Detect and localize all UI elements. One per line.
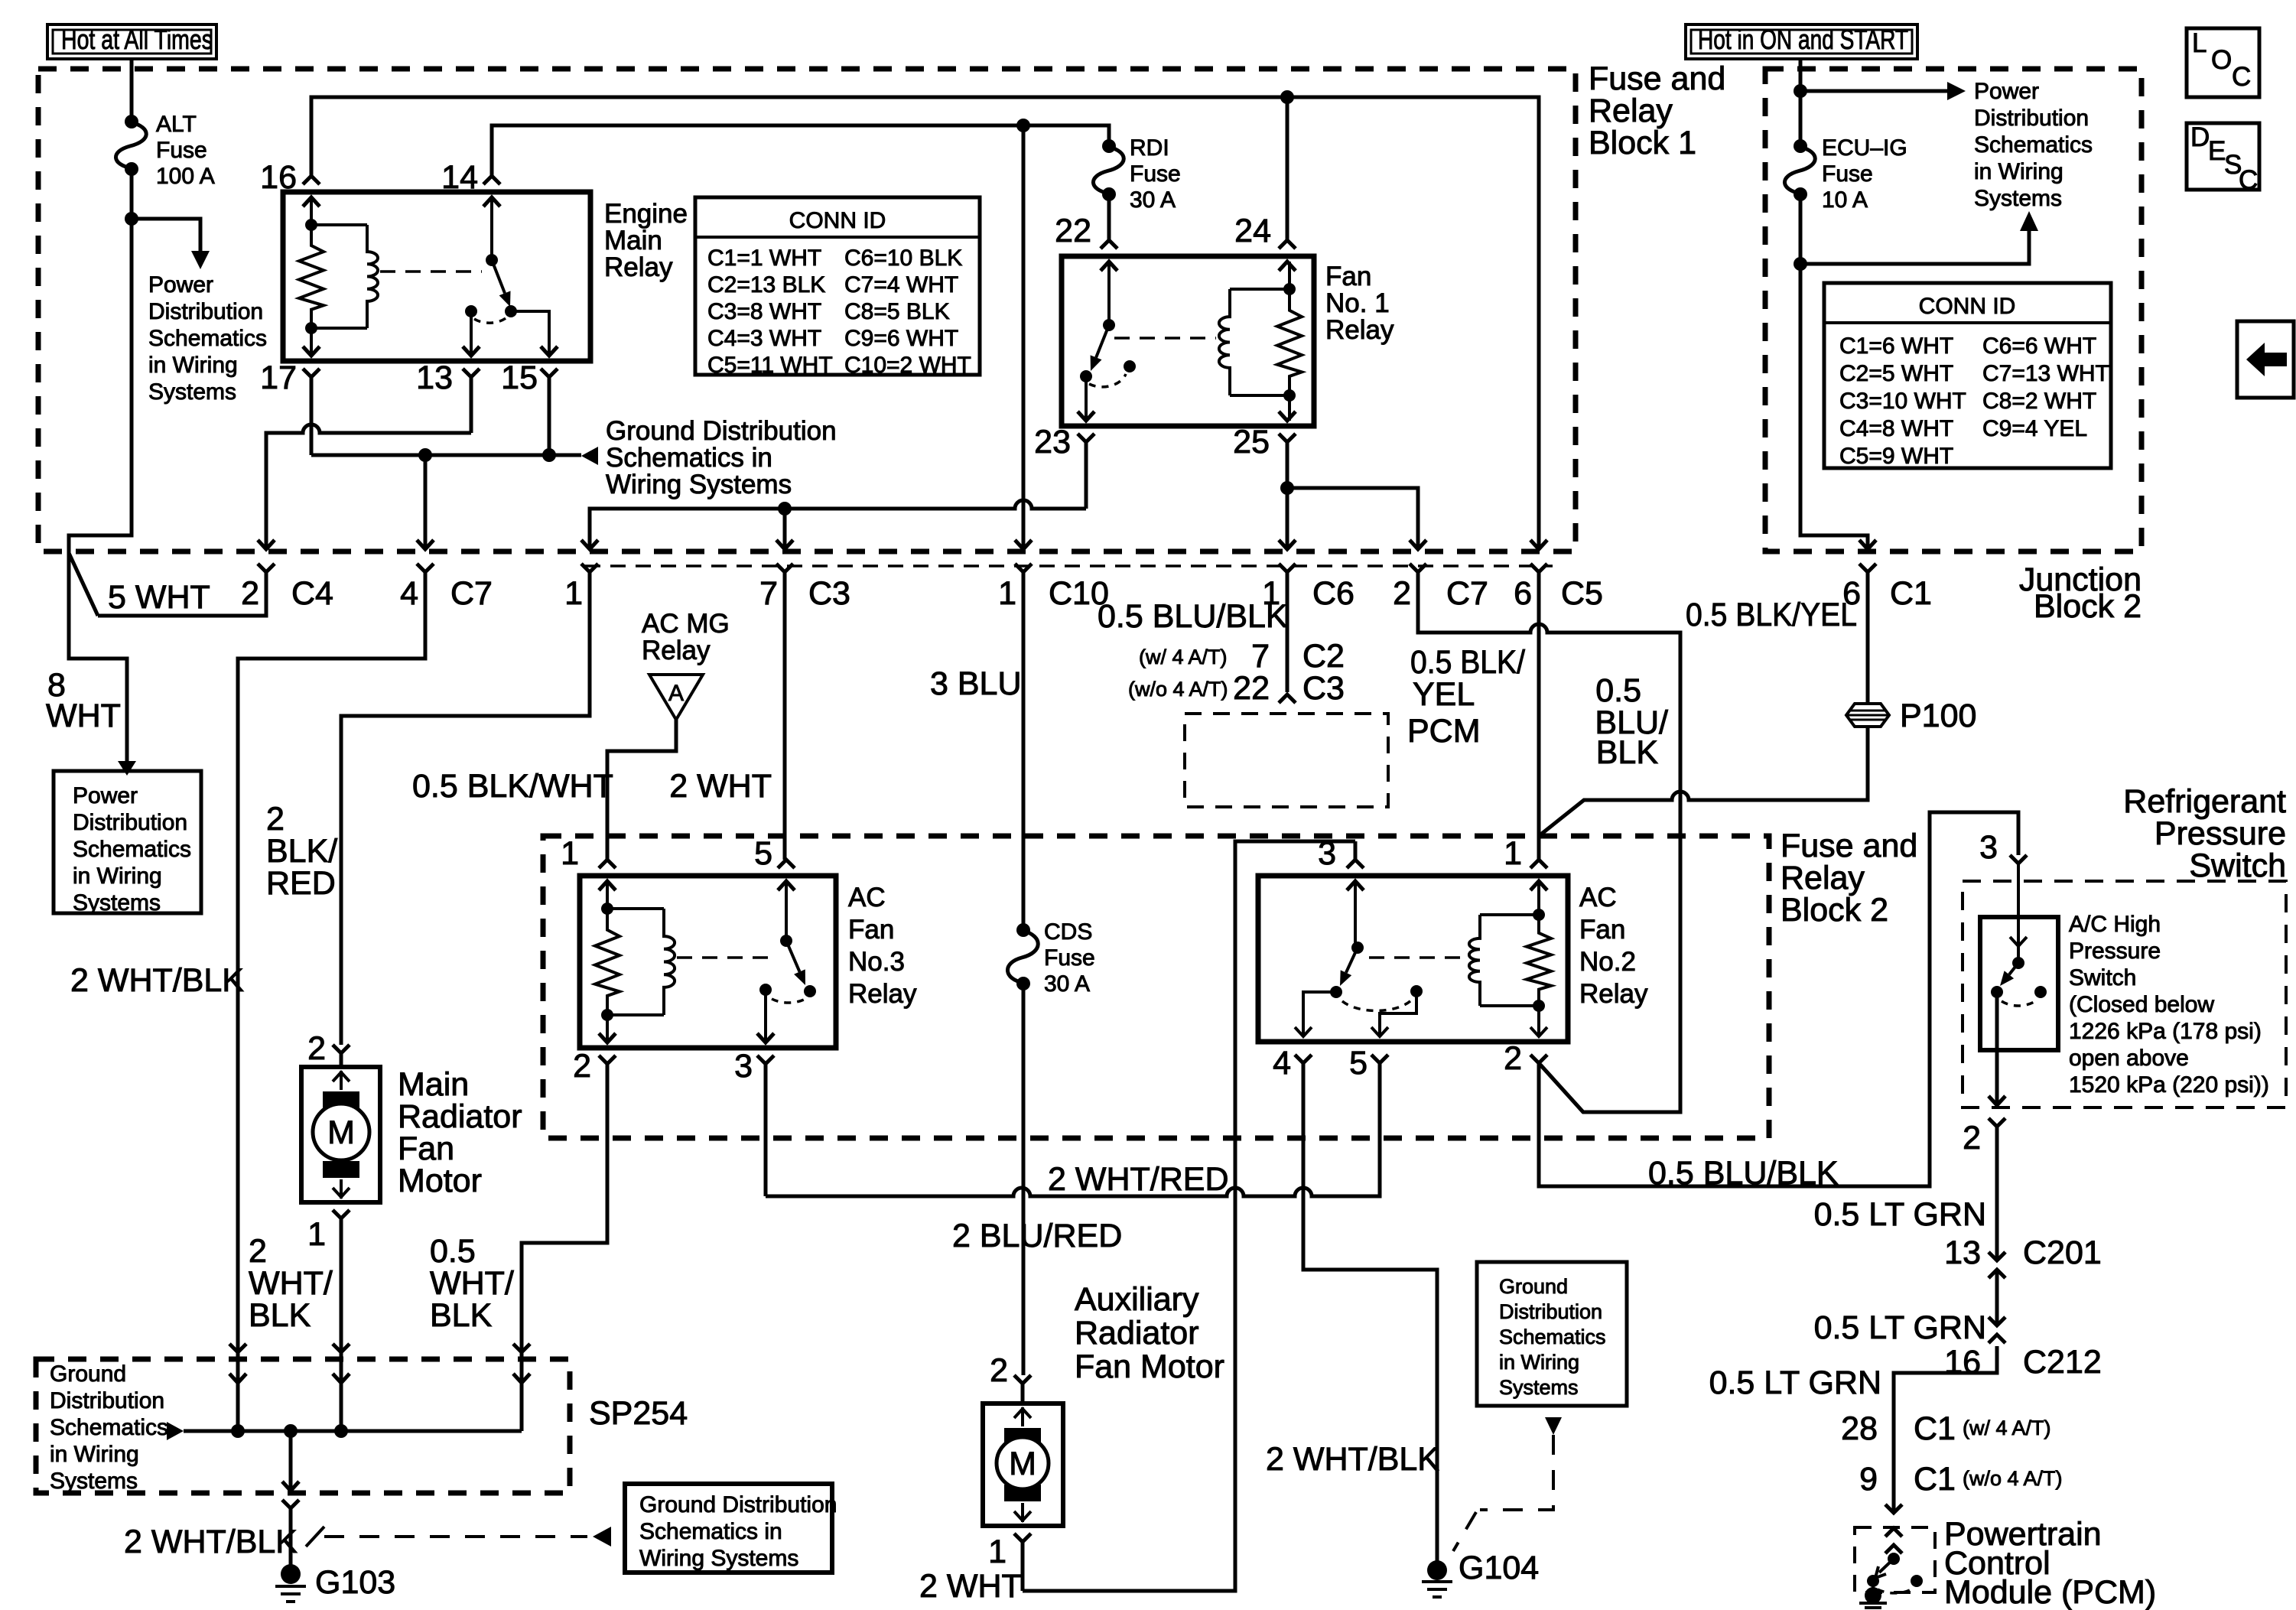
svg-text:C2: C2 bbox=[1302, 638, 1345, 675]
svg-text:C6=10 BLK: C6=10 BLK bbox=[844, 246, 962, 271]
svg-text:Motor: Motor bbox=[398, 1163, 482, 1199]
svg-text:Pressure: Pressure bbox=[2069, 938, 2161, 964]
svg-text:2 WHT/BLK: 2 WHT/BLK bbox=[1266, 1441, 1439, 1478]
svg-text:24: 24 bbox=[1234, 213, 1271, 249]
svg-text:4: 4 bbox=[400, 575, 418, 612]
svg-text:Fan: Fan bbox=[1579, 915, 1625, 945]
svg-text:Systems: Systems bbox=[73, 890, 161, 916]
svg-text:C: C bbox=[2239, 165, 2258, 195]
svg-text:6: 6 bbox=[1514, 575, 1532, 612]
svg-text:Block 1: Block 1 bbox=[1589, 125, 1696, 161]
svg-text:in Wiring: in Wiring bbox=[1499, 1351, 1579, 1374]
svg-text:100 A: 100 A bbox=[156, 164, 215, 189]
svg-text:3: 3 bbox=[734, 1048, 753, 1085]
svg-text:C9=4 YEL: C9=4 YEL bbox=[1982, 416, 2087, 441]
svg-text:C4: C4 bbox=[291, 575, 333, 612]
svg-text:Systems: Systems bbox=[1974, 186, 2062, 211]
svg-text:Fan Motor: Fan Motor bbox=[1075, 1348, 1224, 1385]
svg-text:Block 2: Block 2 bbox=[1781, 892, 1888, 929]
svg-text:Main: Main bbox=[398, 1066, 469, 1103]
svg-text:C1: C1 bbox=[1914, 1461, 1956, 1498]
svg-text:Ground: Ground bbox=[1499, 1275, 1568, 1298]
svg-text:C3=8 WHT: C3=8 WHT bbox=[707, 299, 821, 324]
svg-text:Schematics: Schematics bbox=[50, 1415, 168, 1440]
svg-text:7: 7 bbox=[759, 575, 778, 612]
svg-text:Hot in ON and START: Hot in ON and START bbox=[1698, 24, 1908, 55]
svg-text:Block 2: Block 2 bbox=[2034, 588, 2142, 625]
svg-text:C7: C7 bbox=[450, 575, 493, 612]
svg-text:L: L bbox=[2192, 28, 2207, 58]
svg-text:Engine: Engine bbox=[604, 199, 688, 229]
svg-text:Systems: Systems bbox=[1499, 1376, 1579, 1399]
svg-text:0.5 BLU/BLK: 0.5 BLU/BLK bbox=[1098, 598, 1288, 635]
svg-text:Relay: Relay bbox=[1589, 93, 1673, 129]
svg-text:2: 2 bbox=[249, 1233, 267, 1270]
svg-text:Relay: Relay bbox=[642, 636, 711, 665]
svg-text:15: 15 bbox=[501, 359, 538, 396]
svg-text:C1=6 WHT: C1=6 WHT bbox=[1839, 333, 1953, 359]
svg-text:Relay: Relay bbox=[1579, 979, 1648, 1009]
svg-text:C3: C3 bbox=[1302, 670, 1345, 707]
svg-text:2: 2 bbox=[990, 1352, 1008, 1389]
svg-text:2 WHT/BLK: 2 WHT/BLK bbox=[124, 1524, 298, 1560]
svg-text:BLK: BLK bbox=[430, 1297, 493, 1334]
svg-text:No. 1: No. 1 bbox=[1325, 288, 1390, 318]
svg-text:1: 1 bbox=[307, 1216, 326, 1253]
svg-text:2 WHT: 2 WHT bbox=[669, 768, 772, 805]
svg-text:28: 28 bbox=[1841, 1410, 1878, 1447]
svg-text:ALT: ALT bbox=[156, 112, 197, 137]
svg-text:5: 5 bbox=[754, 835, 772, 872]
svg-text:(w/ 4 A/T): (w/ 4 A/T) bbox=[1963, 1416, 2051, 1439]
svg-text:Relay: Relay bbox=[1325, 315, 1394, 345]
svg-text:1: 1 bbox=[561, 835, 579, 872]
svg-text:Fuse: Fuse bbox=[156, 138, 207, 163]
svg-text:WHT/: WHT/ bbox=[430, 1265, 514, 1302]
svg-text:(Closed below: (Closed below bbox=[2069, 992, 2214, 1017]
svg-text:0.5 LT GRN: 0.5 LT GRN bbox=[1709, 1364, 1881, 1401]
svg-text:Power: Power bbox=[1974, 79, 2039, 104]
svg-text:0.5 BLK/YEL: 0.5 BLK/YEL bbox=[1686, 597, 1857, 633]
svg-text:13: 13 bbox=[1944, 1234, 1981, 1271]
svg-text:14: 14 bbox=[441, 159, 478, 196]
svg-text:7: 7 bbox=[1251, 638, 1270, 675]
svg-text:Fan: Fan bbox=[848, 915, 894, 945]
svg-text:0.5 BLK/WHT: 0.5 BLK/WHT bbox=[412, 768, 613, 805]
svg-text:C4=3 WHT: C4=3 WHT bbox=[707, 326, 821, 351]
svg-text:13: 13 bbox=[416, 359, 453, 396]
svg-text:Switch: Switch bbox=[2069, 965, 2136, 990]
svg-text:C9=6 WHT: C9=6 WHT bbox=[844, 326, 958, 351]
svg-text:Systems: Systems bbox=[148, 379, 236, 405]
svg-text:(w/o 4 A/T): (w/o 4 A/T) bbox=[1963, 1467, 2063, 1490]
svg-text:C201: C201 bbox=[2023, 1234, 2102, 1271]
svg-text:C3: C3 bbox=[808, 575, 850, 612]
svg-text:3 BLU: 3 BLU bbox=[930, 665, 1022, 702]
svg-text:AC MG: AC MG bbox=[642, 609, 730, 639]
svg-text:BLK: BLK bbox=[1596, 734, 1659, 771]
svg-text:Fuse: Fuse bbox=[1130, 161, 1181, 187]
svg-text:Relay: Relay bbox=[604, 252, 673, 282]
svg-text:0.5 BLU/BLK: 0.5 BLU/BLK bbox=[1648, 1155, 1839, 1192]
svg-text:16: 16 bbox=[260, 159, 297, 196]
svg-text:0.5: 0.5 bbox=[1595, 672, 1641, 709]
svg-text:ECU–IG: ECU–IG bbox=[1822, 135, 1907, 161]
svg-text:(w/ 4 A/T): (w/ 4 A/T) bbox=[1139, 646, 1228, 668]
svg-text:Schematics: Schematics bbox=[1499, 1325, 1606, 1348]
svg-text:5 WHT: 5 WHT bbox=[108, 579, 210, 616]
svg-text:2: 2 bbox=[266, 801, 285, 838]
svg-text:M: M bbox=[327, 1114, 355, 1151]
svg-text:Hot at All Times: Hot at All Times bbox=[61, 24, 213, 55]
svg-text:(w/o 4 A/T): (w/o 4 A/T) bbox=[1128, 678, 1228, 701]
svg-text:0.5 BLK/: 0.5 BLK/ bbox=[1410, 644, 1525, 681]
svg-text:22: 22 bbox=[1233, 670, 1270, 707]
svg-text:16: 16 bbox=[1944, 1344, 1981, 1381]
svg-text:Radiator: Radiator bbox=[1075, 1315, 1199, 1351]
svg-text:2: 2 bbox=[1504, 1040, 1522, 1077]
svg-text:C: C bbox=[2232, 62, 2251, 92]
svg-text:BLK/: BLK/ bbox=[266, 833, 337, 870]
svg-text:0.5 LT GRN: 0.5 LT GRN bbox=[1814, 1309, 1986, 1346]
svg-text:C2=5 WHT: C2=5 WHT bbox=[1839, 361, 1953, 386]
svg-text:Wiring Systems: Wiring Systems bbox=[606, 470, 792, 499]
svg-text:No.3: No.3 bbox=[848, 947, 905, 977]
svg-text:Ground Distribution: Ground Distribution bbox=[639, 1492, 837, 1517]
svg-text:22: 22 bbox=[1055, 213, 1091, 249]
svg-text:Fuse and: Fuse and bbox=[1589, 60, 1725, 97]
svg-text:30 A: 30 A bbox=[1044, 971, 1090, 997]
svg-text:E: E bbox=[2208, 136, 2226, 166]
svg-text:RDI: RDI bbox=[1130, 135, 1169, 161]
svg-text:Power: Power bbox=[73, 783, 138, 808]
svg-text:23: 23 bbox=[1034, 424, 1071, 460]
svg-text:2: 2 bbox=[241, 575, 259, 612]
svg-text:G104: G104 bbox=[1459, 1550, 1539, 1586]
svg-text:P100: P100 bbox=[1900, 698, 1976, 734]
svg-text:2: 2 bbox=[307, 1030, 326, 1067]
svg-text:Distribution: Distribution bbox=[1499, 1300, 1602, 1323]
svg-text:Switch: Switch bbox=[2189, 847, 2286, 884]
svg-text:G103: G103 bbox=[315, 1564, 395, 1601]
svg-text:AC: AC bbox=[1579, 883, 1617, 912]
svg-text:Schematics in: Schematics in bbox=[639, 1519, 782, 1544]
svg-text:1: 1 bbox=[998, 575, 1016, 612]
svg-text:Fuse: Fuse bbox=[1822, 161, 1873, 187]
svg-text:Radiator: Radiator bbox=[398, 1098, 522, 1135]
svg-text:5: 5 bbox=[1349, 1045, 1368, 1081]
svg-text:SP254: SP254 bbox=[589, 1395, 688, 1432]
svg-text:D: D bbox=[2190, 122, 2210, 152]
svg-text:Auxiliary: Auxiliary bbox=[1075, 1281, 1199, 1318]
svg-text:C212: C212 bbox=[2023, 1344, 2102, 1381]
svg-text:C4=8 WHT: C4=8 WHT bbox=[1839, 416, 1953, 441]
svg-text:C1=1 WHT: C1=1 WHT bbox=[707, 246, 821, 271]
svg-text:A/C High: A/C High bbox=[2069, 912, 2161, 937]
svg-text:A: A bbox=[668, 681, 684, 706]
svg-text:O: O bbox=[2211, 45, 2232, 75]
svg-text:C2=13 BLK: C2=13 BLK bbox=[707, 272, 825, 298]
svg-text:BLK: BLK bbox=[249, 1297, 311, 1334]
svg-text:1520 kPa (220 psi)): 1520 kPa (220 psi)) bbox=[2069, 1072, 2269, 1098]
svg-text:open above: open above bbox=[2069, 1046, 2189, 1071]
svg-text:C7: C7 bbox=[1446, 575, 1488, 612]
svg-text:4: 4 bbox=[1273, 1045, 1291, 1081]
svg-text:RED: RED bbox=[266, 865, 336, 902]
svg-text:3: 3 bbox=[1979, 829, 1998, 866]
svg-text:1: 1 bbox=[1504, 835, 1522, 872]
svg-text:Distribution: Distribution bbox=[148, 299, 263, 324]
svg-text:Refrigerant: Refrigerant bbox=[2123, 783, 2286, 820]
svg-text:in Wiring: in Wiring bbox=[50, 1442, 139, 1467]
svg-text:Schematics: Schematics bbox=[1974, 132, 2093, 158]
svg-text:C5=11 WHT: C5=11 WHT bbox=[707, 353, 833, 378]
svg-text:Schematics: Schematics bbox=[73, 837, 191, 862]
svg-text:C7=13 WHT: C7=13 WHT bbox=[1982, 361, 2109, 386]
svg-text:2 BLU/RED: 2 BLU/RED bbox=[952, 1218, 1122, 1254]
svg-text:Fuse and: Fuse and bbox=[1781, 828, 1917, 864]
svg-text:C6=6 WHT: C6=6 WHT bbox=[1982, 333, 2096, 359]
svg-text:Wiring Systems: Wiring Systems bbox=[639, 1546, 798, 1571]
svg-text:C5: C5 bbox=[1561, 575, 1603, 612]
svg-text:1: 1 bbox=[564, 575, 583, 612]
svg-text:YEL: YEL bbox=[1413, 676, 1475, 713]
svg-text:1: 1 bbox=[988, 1534, 1007, 1570]
svg-text:9: 9 bbox=[1859, 1461, 1878, 1498]
svg-text:Systems: Systems bbox=[50, 1469, 138, 1494]
svg-text:No.2: No.2 bbox=[1579, 947, 1636, 977]
svg-text:2 WHT/RED: 2 WHT/RED bbox=[1048, 1161, 1229, 1198]
svg-text:0.5 LT GRN: 0.5 LT GRN bbox=[1814, 1196, 1986, 1233]
svg-text:C1: C1 bbox=[1890, 575, 1932, 612]
svg-text:Fan: Fan bbox=[398, 1130, 454, 1167]
svg-text:CDS: CDS bbox=[1044, 919, 1092, 945]
svg-text:C1: C1 bbox=[1914, 1410, 1956, 1447]
svg-text:2 WHT: 2 WHT bbox=[919, 1568, 1022, 1605]
svg-text:10 A: 10 A bbox=[1822, 187, 1868, 213]
svg-text:Pressure: Pressure bbox=[2155, 815, 2286, 852]
svg-text:Distribution: Distribution bbox=[50, 1388, 164, 1413]
svg-text:Fuse: Fuse bbox=[1044, 945, 1095, 971]
svg-text:Ground: Ground bbox=[50, 1361, 126, 1387]
svg-text:0.5: 0.5 bbox=[430, 1233, 476, 1270]
svg-text:C8=2 WHT: C8=2 WHT bbox=[1982, 389, 2096, 414]
svg-text:25: 25 bbox=[1233, 424, 1270, 460]
svg-text:C8=5 BLK: C8=5 BLK bbox=[844, 299, 950, 324]
svg-text:in Wiring: in Wiring bbox=[148, 353, 238, 378]
svg-text:Relay: Relay bbox=[848, 979, 917, 1009]
svg-text:17: 17 bbox=[260, 359, 297, 396]
svg-text:M: M bbox=[1009, 1446, 1036, 1482]
svg-text:Main: Main bbox=[604, 226, 662, 255]
svg-text:in Wiring: in Wiring bbox=[1974, 159, 2063, 184]
svg-text:C7=4 WHT: C7=4 WHT bbox=[844, 272, 958, 298]
svg-text:2 WHT/BLK: 2 WHT/BLK bbox=[70, 962, 244, 999]
svg-text:WHT: WHT bbox=[46, 698, 121, 734]
svg-text:30 A: 30 A bbox=[1130, 187, 1176, 213]
svg-text:in Wiring: in Wiring bbox=[73, 864, 162, 889]
svg-text:1226 kPa (178 psi): 1226 kPa (178 psi) bbox=[2069, 1019, 2262, 1044]
svg-text:C3=10 WHT: C3=10 WHT bbox=[1839, 389, 1966, 414]
svg-text:PCM: PCM bbox=[1407, 713, 1481, 750]
svg-text:2: 2 bbox=[1393, 575, 1411, 612]
svg-text:C6: C6 bbox=[1312, 575, 1355, 612]
svg-text:Ground Distribution: Ground Distribution bbox=[606, 416, 837, 446]
svg-text:2: 2 bbox=[573, 1048, 591, 1085]
svg-text:2: 2 bbox=[1963, 1120, 1981, 1156]
svg-text:Fan: Fan bbox=[1325, 262, 1371, 291]
svg-text:AC: AC bbox=[848, 883, 886, 912]
svg-text:Schematics in: Schematics in bbox=[606, 443, 772, 473]
svg-text:Module (PCM): Module (PCM) bbox=[1944, 1574, 2156, 1610]
svg-text:C10=2 WHT: C10=2 WHT bbox=[844, 353, 971, 378]
svg-text:Power: Power bbox=[148, 272, 213, 298]
svg-text:Relay: Relay bbox=[1781, 860, 1865, 896]
svg-text:CONN ID: CONN ID bbox=[1919, 294, 2016, 319]
svg-text:Distribution: Distribution bbox=[1974, 106, 2089, 131]
svg-text:C5=9 WHT: C5=9 WHT bbox=[1839, 444, 1953, 469]
svg-text:Schematics: Schematics bbox=[148, 326, 267, 351]
svg-text:WHT/: WHT/ bbox=[249, 1265, 333, 1302]
svg-text:Distribution: Distribution bbox=[73, 810, 187, 835]
svg-text:CONN ID: CONN ID bbox=[789, 208, 886, 233]
